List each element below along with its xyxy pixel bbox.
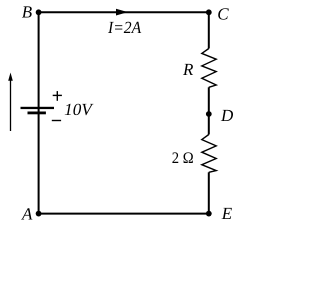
svg-text:C: C [217, 4, 229, 23]
svg-text:D: D [220, 106, 234, 125]
svg-text:2 Ω: 2 Ω [172, 150, 194, 167]
svg-text:R: R [182, 60, 194, 79]
svg-text:A: A [21, 204, 33, 223]
svg-text:10V: 10V [64, 100, 94, 119]
svg-text:B: B [22, 2, 33, 21]
svg-text:E: E [221, 204, 233, 223]
svg-text:I=2A: I=2A [107, 18, 142, 37]
